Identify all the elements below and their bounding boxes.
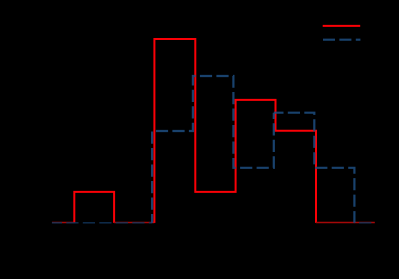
legend blue dashed line sample [323, 39, 360, 41]
red histogram baseline segment (middle, clipped thin) [114, 222, 154, 224]
red histogram main steps [154, 39, 316, 223]
blue dashed baseline segment (right, clipped thin) [354, 222, 372, 224]
red histogram baseline segment (left, clipped thin) [52, 222, 74, 224]
red histogram first box [74, 192, 114, 223]
legend red line sample [323, 25, 361, 27]
blue dashed histogram steps (left half) [152, 76, 274, 223]
red histogram baseline segment (right, clipped thin) [316, 222, 375, 224]
blue dashed histogram steps (right half) [274, 113, 355, 223]
blue dashed baseline segment (left, clipped thin) [52, 222, 152, 224]
